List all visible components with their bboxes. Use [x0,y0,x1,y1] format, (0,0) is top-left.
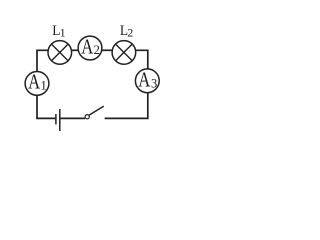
svg-text:1: 1 [41,78,47,92]
switch pivot [85,115,89,119]
svg-text:2: 2 [94,43,100,57]
ammeter A1 [25,72,49,96]
svg-text:A: A [138,67,151,91]
wire switch pivot to battery positive plate [60,117,85,119]
svg-text:A: A [28,70,41,94]
wire A3 bottom to bottom-right corner to switch [105,93,148,119]
svg-text:1: 1 [60,25,66,39]
ammeter A3 [135,69,159,93]
wire battery to bottom-left corner up to A1 bottom [37,95,55,118]
svg-text:3: 3 [151,76,157,90]
switch lever [89,106,104,115]
lamp L2 [112,41,136,65]
wire L1 to A2 [72,49,79,51]
lamp L1 [48,41,72,65]
battery negative (short) plate [55,114,57,124]
battery positive (long) plate [59,109,61,131]
svg-text:2: 2 [127,25,133,39]
ammeter A2 [78,36,102,60]
wire: top-left corner down to ammeter A1 top [37,50,48,71]
wire A2 to L2 [102,49,112,51]
wire L2 to top-right corner down to A3 [136,50,148,69]
svg-text:A: A [81,34,94,58]
